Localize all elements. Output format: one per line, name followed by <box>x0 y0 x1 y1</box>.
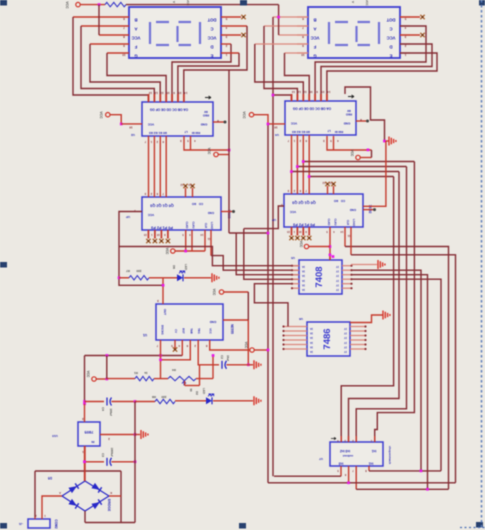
svg-text:1Y: 1Y <box>336 288 339 291</box>
svg-text:7408: 7408 <box>314 266 325 287</box>
svg-text:1k: 1k <box>144 371 148 375</box>
svg-text:B: B <box>134 17 137 22</box>
svg-text:V: V <box>172 1 176 3</box>
svg-text:in3 in2: in3 in2 <box>340 449 350 453</box>
svg-text:LT: LT <box>327 129 331 133</box>
svg-text:RBO: RBO <box>202 114 209 118</box>
svg-text:THR: THR <box>189 328 193 334</box>
svg-text:1A: 1A <box>302 274 305 277</box>
svg-text:A: A <box>59 491 61 495</box>
svg-text:P0 P1 P2 P3: P0 P1 P2 P3 <box>151 226 173 230</box>
svg-text:16: 16 <box>129 126 133 130</box>
svg-text:U10: U10 <box>52 434 58 438</box>
svg-text:1A: 1A <box>302 265 305 268</box>
svg-text:1Y: 1Y <box>336 270 339 273</box>
svg-text:in1: in1 <box>368 462 373 466</box>
svg-text:RBI BI: RBI BI <box>192 131 201 135</box>
svg-text:13: 13 <box>149 91 153 95</box>
svg-text:U7: U7 <box>319 457 323 461</box>
svg-text:LOAD: LOAD <box>352 219 355 226</box>
svg-text:VCC: VCC <box>311 35 320 40</box>
svg-text:1A: 1A <box>302 270 305 273</box>
svg-text:330: 330 <box>136 269 141 273</box>
svg-text:1A: 1A <box>302 283 305 286</box>
svg-text:VCC: VCC <box>387 35 396 40</box>
svg-text:chuyenmach: chuyenmach <box>388 446 392 465</box>
svg-text:P0 P1 P2 P3: P0 P1 P2 P3 <box>293 223 315 227</box>
svg-text:VCC: VCC <box>350 150 354 157</box>
svg-text:16: 16 <box>274 126 278 130</box>
svg-text:15: 15 <box>178 91 182 95</box>
svg-text:VCC: VCC <box>212 289 216 296</box>
svg-text:V: V <box>351 1 355 3</box>
svg-text:UP: UP <box>126 215 130 219</box>
svg-text:7486: 7486 <box>322 328 333 349</box>
svg-text:U2: U2 <box>131 133 135 137</box>
svg-text:50: 50 <box>189 388 193 392</box>
svg-text:1Y: 1Y <box>344 350 347 353</box>
svg-text:C3: C3 <box>101 453 105 457</box>
svg-text:1Y: 1Y <box>336 274 339 277</box>
svg-text:GND: GND <box>350 208 356 212</box>
svg-text:CLKU: CLKU <box>192 222 195 229</box>
svg-text:CLKU: CLKU <box>334 219 337 226</box>
svg-text:330: 330 <box>161 395 166 399</box>
svg-text:GND: GND <box>343 122 351 126</box>
svg-text:1A: 1A <box>310 345 313 348</box>
svg-text:1Y: 1Y <box>336 279 339 282</box>
svg-text:1Y: 1Y <box>344 336 347 339</box>
svg-text:RBI BI: RBI BI <box>335 130 344 134</box>
svg-text:G: G <box>313 53 316 58</box>
svg-text:1A: 1A <box>310 336 313 339</box>
svg-text:COM2: COM2 <box>54 519 58 528</box>
svg-text:GND: GND <box>209 320 217 324</box>
svg-text:U5: U5 <box>291 256 295 260</box>
svg-text:1A: 1A <box>310 350 313 353</box>
svg-text:VCC: VCC <box>290 122 297 126</box>
svg-text:F: F <box>313 44 316 49</box>
svg-text:U4: U4 <box>275 133 279 137</box>
svg-text:14: 14 <box>327 90 331 94</box>
svg-text:1A: 1A <box>302 279 305 282</box>
svg-text:1Y: 1Y <box>336 283 339 286</box>
svg-text:in1: in1 <box>371 449 376 453</box>
svg-text:VCC: VCC <box>147 213 154 217</box>
svg-text:CLR: CLR <box>346 220 349 225</box>
svg-text:10uf: 10uf <box>226 355 230 361</box>
svg-text:VCC: VCC <box>99 111 103 119</box>
svg-text:1Y: 1Y <box>344 345 347 348</box>
svg-text:10: 10 <box>122 53 126 57</box>
svg-text:TRG: TRG <box>197 328 201 334</box>
svg-text:DOT: DOT <box>207 17 216 22</box>
svg-text:1000uf: 1000uf <box>110 448 114 457</box>
svg-text:LOAD: LOAD <box>210 222 213 229</box>
svg-text:R4: R4 <box>172 368 176 372</box>
svg-text:R7: R7 <box>126 269 130 273</box>
svg-text:E: E <box>389 53 392 58</box>
svg-text:12: 12 <box>154 91 158 95</box>
svg-text:CLKD: CLKD <box>185 222 188 229</box>
svg-text:LT: LT <box>184 130 188 134</box>
svg-text:D2: D2 <box>195 391 199 395</box>
svg-text:OA OB OC OD OE OF OG: OA OB OC OD OE OF OG <box>149 108 188 112</box>
svg-text:Q0 Q1 Q2 Q3: Q0 Q1 Q2 Q3 <box>150 204 173 208</box>
svg-text:BI/: BI/ <box>347 109 351 113</box>
svg-text:NE555: NE555 <box>230 324 234 334</box>
svg-text:VCC: VCC <box>209 328 213 334</box>
svg-text:DOT: DOT <box>386 17 395 22</box>
svg-text:1Y: 1Y <box>344 341 347 344</box>
svg-text:LED: LED <box>202 388 206 395</box>
svg-text:CLR: CLR <box>204 223 207 228</box>
svg-text:LED: LED <box>184 264 188 271</box>
svg-text:D5: D5 <box>48 476 52 480</box>
svg-text:BI/: BI/ <box>204 110 208 114</box>
svg-text:11: 11 <box>160 91 163 95</box>
svg-text:14: 14 <box>184 91 188 95</box>
svg-text:1A: 1A <box>302 288 305 291</box>
svg-text:A: A <box>134 26 137 31</box>
svg-text:VCC: VCC <box>207 148 211 155</box>
svg-text:B0 B1 B2 B3: B0 B1 B2 B3 <box>149 131 167 135</box>
svg-text:CLKD: CLKD <box>327 219 330 226</box>
svg-text:VCC: VCC <box>165 248 169 255</box>
svg-text:BRIDGE: BRIDGE <box>107 499 111 511</box>
svg-text:1Y: 1Y <box>336 265 339 268</box>
svg-text:VCC: VCC <box>208 35 217 40</box>
svg-text:DSCHG: DSCHG <box>161 325 165 335</box>
svg-text:in3: in3 <box>338 462 343 466</box>
svg-text:RBO: RBO <box>345 113 352 117</box>
svg-text:13: 13 <box>292 90 296 94</box>
svg-text:C2: C2 <box>220 355 224 359</box>
svg-text:15: 15 <box>321 90 325 94</box>
svg-text:1A: 1A <box>310 327 313 330</box>
svg-text:1A: 1A <box>310 332 313 335</box>
svg-text:U1: U1 <box>143 333 147 337</box>
svg-text:OA OB OC OD OE OF OG: OA OB OC OD OE OF OG <box>292 107 331 111</box>
svg-text:Q0 Q1 Q2 Q3: Q0 Q1 Q2 Q3 <box>292 201 315 205</box>
svg-text:OUT: OUT <box>163 309 167 316</box>
svg-text:VCC: VCC <box>242 111 246 119</box>
svg-text:R8: R8 <box>152 395 156 399</box>
svg-text:CV: CV <box>174 329 178 333</box>
svg-text:VCC: VCC <box>147 123 154 127</box>
svg-text:GND: GND <box>200 123 208 127</box>
svg-text:1Y: 1Y <box>344 327 347 330</box>
svg-text:VCC: VCC <box>244 342 248 349</box>
svg-text:E: E <box>210 53 213 58</box>
svg-text:10: 10 <box>309 90 313 94</box>
svg-text:K: K <box>110 491 112 495</box>
svg-text:B0 B1 B2 B3: B0 B1 B2 B3 <box>292 130 310 134</box>
svg-text:A: A <box>313 26 316 31</box>
svg-text:GND: GND <box>208 211 214 215</box>
svg-text:7805: 7805 <box>84 430 94 435</box>
svg-text:1Y: 1Y <box>344 332 347 335</box>
svg-text:11: 11 <box>303 90 306 94</box>
svg-text:C: C <box>210 26 213 31</box>
svg-text:VCC: VCC <box>365 0 369 6</box>
svg-text:RST: RST <box>181 328 185 334</box>
svg-text:VCC: VCC <box>132 35 141 40</box>
svg-text:G: G <box>134 53 137 58</box>
svg-text:B: B <box>313 17 316 22</box>
svg-text:VCC: VCC <box>186 0 190 6</box>
svg-text:D: D <box>389 44 392 49</box>
svg-text:R1: R1 <box>134 371 138 375</box>
svg-text:VCC: VCC <box>65 1 69 9</box>
svg-text:12: 12 <box>297 90 301 94</box>
svg-text:C: C <box>389 26 392 31</box>
svg-text:VCC: VCC <box>86 371 90 378</box>
svg-text:VCC: VCC <box>289 210 296 214</box>
svg-text:IN: IN <box>92 440 95 444</box>
svg-text:1A: 1A <box>310 341 313 344</box>
svg-text:D6: D6 <box>172 265 176 269</box>
svg-text:10: 10 <box>166 91 170 95</box>
svg-text:outbout: outbout <box>343 454 353 458</box>
svg-text:D: D <box>210 44 213 49</box>
svg-text:U6: U6 <box>299 317 303 321</box>
svg-text:C4: C4 <box>101 407 105 411</box>
svg-text:100uf: 100uf <box>109 408 113 415</box>
svg-text:F: F <box>134 44 137 49</box>
svg-text:VCC: VCC <box>299 241 303 248</box>
svg-text:-J1: -J1 <box>19 522 24 526</box>
svg-text:UP: UP <box>272 218 276 222</box>
